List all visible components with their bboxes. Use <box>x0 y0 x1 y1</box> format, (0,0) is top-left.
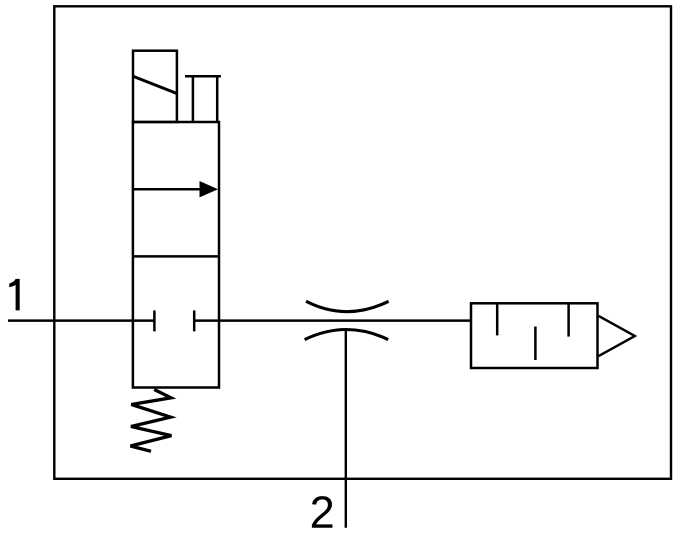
valve body outline <box>133 122 219 388</box>
pilot box <box>185 76 221 122</box>
flow arrowhead <box>200 181 219 197</box>
solenoid coil diagonal stroke <box>133 76 176 93</box>
label port 1 <box>9 279 20 311</box>
port 2 exhaust line <box>345 330 347 528</box>
silencer body <box>471 303 598 368</box>
border frame <box>54 6 671 479</box>
blocked port tick right <box>193 310 196 331</box>
blocked port tick left <box>153 310 156 331</box>
port 1 supply line <box>8 319 154 322</box>
silencer tick 3 <box>567 303 570 336</box>
solenoid coil Y1 box <box>133 51 177 122</box>
silencer tick 1 <box>496 303 499 335</box>
label port 2 <box>312 496 333 528</box>
throttle restrictor upper arc <box>306 301 389 311</box>
silencer tick 2 <box>534 327 537 361</box>
flow arrow (upper position) <box>133 188 204 191</box>
throttle restrictor lower arc <box>305 330 389 340</box>
working line to silencer <box>194 319 471 322</box>
valve position divider <box>133 255 219 258</box>
silencer outlet cone <box>599 316 635 356</box>
return spring <box>131 390 172 452</box>
